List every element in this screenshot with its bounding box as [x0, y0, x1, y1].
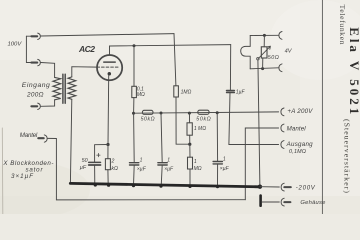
- tube V1 grid (dashed): [97, 66, 120, 68]
- heater loop top wire: [250, 34, 278, 36]
- svg-text:AC2: AC2: [78, 44, 95, 54]
- capacitor C5 1uF coupling plates: [227, 90, 235, 92]
- heater loop left side with heater bump: [241, 36, 251, 69]
- wire: secondary top to tube grid: [72, 67, 97, 77]
- tube V1 cathode dot: [108, 72, 112, 76]
- svg-text:1: 1: [194, 159, 197, 165]
- wire: R4 leads: [189, 144, 191, 157]
- wire: from anode dot down to R1: [133, 46, 135, 87]
- capacitor C3 1uF plates: [213, 161, 222, 163]
- svg-text:1 MΩ: 1 MΩ: [194, 126, 206, 132]
- jack J5 heater top: [279, 32, 282, 40]
- wire: cathode down to R7: [107, 145, 109, 159]
- wire: C4 bottom to bus: [94, 165, 96, 185]
- wire: C3 leads: [216, 113, 218, 162]
- node: row dot at C1: [132, 112, 135, 115]
- tube V1 envelope: [97, 55, 122, 80]
- resistor R1 0,1M: [132, 86, 137, 97]
- resistor R6 50k: [198, 110, 209, 114]
- potentiometer P1 wiper arrow: [258, 46, 270, 58]
- svg-text:(Steuerverstärker): (Steuerverstärker): [342, 119, 351, 193]
- wire: cathode tee to 50uF: [95, 145, 108, 163]
- wire: R7 bottom to bus: [107, 170, 109, 186]
- node: bus dot at 2k: [107, 184, 110, 187]
- transformer T1 core: [62, 74, 64, 103]
- node: row dot at R3: [188, 112, 191, 115]
- wire: J2 to transformer primary top: [41, 63, 55, 78]
- node: node B dot (R2/R3/R4 junction): [188, 143, 191, 146]
- svg-text:-200V: -200V: [296, 186, 316, 192]
- svg-text:50: 50: [82, 158, 88, 164]
- node: anode/R1 junction dot: [133, 44, 136, 47]
- chassis bar (Gehaeuse): [259, 196, 262, 206]
- node: pot bottom dot: [261, 67, 264, 70]
- wire: R3 leads: [188, 113, 190, 123]
- node: bus dot at 50uF: [94, 183, 97, 186]
- svg-text:200Ω: 200Ω: [26, 92, 44, 99]
- resistor R3 1M upper: [187, 123, 192, 135]
- svg-text:1µF: 1µF: [236, 89, 246, 95]
- capacitor C2 1uF plates: [158, 162, 167, 164]
- svg-text:1: 1: [140, 157, 143, 163]
- potentiometer P1 wiper terminal circle: [257, 58, 259, 60]
- wire: secondary bottom down to ground bus: [70, 99, 71, 183]
- +A supply row wire: [134, 112, 279, 113]
- svg-text:100V: 100V: [8, 41, 23, 47]
- svg-text:×µF: ×µF: [164, 166, 174, 172]
- svg-text:Mantel: Mantel: [287, 126, 307, 133]
- svg-text:MΩ: MΩ: [194, 166, 202, 172]
- node: bus end dot: [258, 185, 262, 189]
- transformer T1 secondary winding: [68, 77, 76, 99]
- svg-text:50kΩ: 50kΩ: [196, 117, 210, 123]
- resistor R5 50k: [142, 110, 153, 114]
- wire: pot top lead: [263, 35, 265, 46]
- jack J2 100V bottom: [26, 59, 40, 65]
- jack J3 Eingang: [31, 103, 40, 109]
- node: bus dot at C2: [159, 185, 162, 188]
- jack J1 100V top (plug+socket): [26, 33, 40, 39]
- wire: anode lead up from tube: [109, 46, 111, 55]
- wire: J3 to transformer primary bottom: [41, 100, 55, 107]
- wire: bus to -200V jack: [260, 186, 279, 188]
- svg-text:µF: µF: [80, 165, 87, 171]
- wire: C1 leads: [133, 113, 136, 163]
- jack J11 Gehaeuse: [281, 198, 290, 206]
- tube V1 anode plate bar: [104, 61, 115, 63]
- capacitor C4 50uF electrolytic plates: [89, 161, 101, 163]
- wire: cathode lead down from tube: [107, 76, 110, 145]
- jack J4 Mantel left: [38, 135, 47, 142]
- svg-text:kΩ: kΩ: [111, 166, 118, 172]
- wire: vertical link between 100V jacks: [25, 36, 27, 62]
- potentiometer P1 body: [261, 47, 267, 58]
- wire: anode line to the right: [110, 45, 231, 46]
- jack J10 -200V: [281, 183, 291, 191]
- jack J8 Mantel right: [281, 124, 284, 132]
- wire: R1 bottom to +A row: [133, 98, 135, 114]
- capacitor C1 1uF plates: [130, 162, 139, 164]
- title block separator line: [321, 0, 323, 214]
- wire: Mantel shield line to bottom and right: [48, 138, 246, 200]
- node: pot top dot: [263, 34, 266, 37]
- page edge line left: [1, 128, 4, 214]
- node: bus dot at C3: [216, 185, 219, 188]
- node: row dot at C2: [160, 112, 163, 115]
- jack J6 heater bottom: [279, 64, 282, 72]
- node: bus dot at R4: [188, 185, 191, 188]
- wire: C5 bottom down to Ausgang line: [229, 93, 279, 145]
- svg-text:×µF: ×µF: [137, 166, 147, 172]
- svg-text:50Ω: 50Ω: [268, 55, 279, 61]
- svg-text:1: 1: [223, 156, 226, 162]
- transformer T1 primary winding: [53, 77, 61, 99]
- wire: wiper to ground bus: [258, 60, 260, 187]
- jack J9 Ausgang: [281, 141, 284, 149]
- svg-text:Ausgang: Ausgang: [286, 141, 314, 148]
- wire: R2 bottom down and right to node B: [176, 97, 190, 144]
- node: cathode junction dot: [106, 143, 109, 146]
- wire: anode line corner down through C5 to Ausgang: [229, 45, 231, 91]
- jack J7 +A: [281, 108, 284, 116]
- svg-text:×µF: ×µF: [220, 166, 230, 172]
- svg-text:Mantel: Mantel: [20, 132, 38, 139]
- svg-text:2: 2: [111, 158, 115, 164]
- node: row dot at C3: [216, 111, 219, 114]
- svg-text:+A 200V: +A 200V: [287, 108, 313, 115]
- svg-text:1MΩ: 1MΩ: [181, 90, 192, 96]
- ground bus (thick): [70, 183, 260, 186]
- svg-text:MΩ: MΩ: [137, 92, 145, 98]
- wire: Mantel right: [245, 128, 278, 200]
- resistor R2 1M (from 100V rail): [174, 86, 179, 97]
- node: bus dot at C1: [132, 184, 135, 187]
- svg-text:50kΩ: 50kΩ: [141, 117, 155, 123]
- wire: 100V top rail to the right: [41, 34, 174, 36]
- wire: pot bottom lead: [262, 58, 264, 69]
- wire: C2 leads: [161, 113, 162, 163]
- resistor R4 1M lower: [188, 157, 193, 169]
- wire: vertical from rail down to R2 (crosses anode line): [174, 34, 176, 86]
- plus sign of C4: [97, 153, 100, 156]
- svg-text:Eingang: Eingang: [22, 82, 50, 89]
- heater loop bottom wire: [250, 68, 278, 69]
- svg-text:0,1MΩ: 0,1MΩ: [289, 149, 306, 155]
- svg-text:Telefunken: Telefunken: [338, 5, 347, 45]
- svg-text:1: 1: [167, 158, 170, 164]
- resistor R7 2k: [105, 159, 110, 170]
- wire: chassis bar to Gehaeuse jack: [262, 201, 280, 203]
